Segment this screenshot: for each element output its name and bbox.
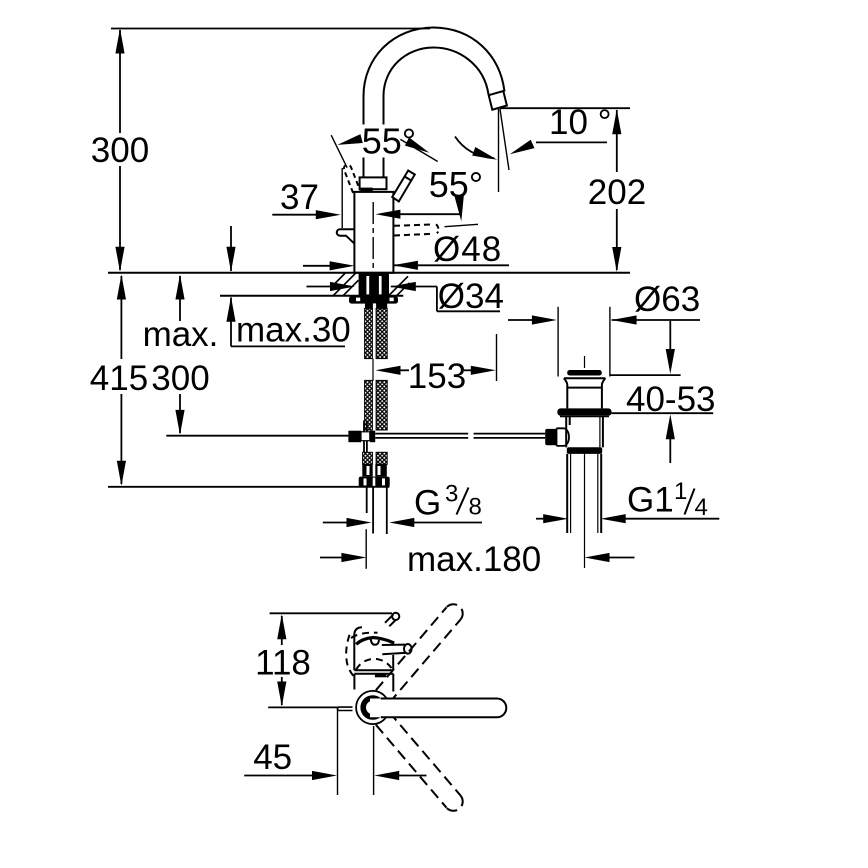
svg-text:4: 4 — [695, 494, 708, 521]
svg-text:max.: max. — [143, 315, 219, 354]
svg-text:max.30: max.30 — [236, 311, 351, 350]
svg-text:max.180: max.180 — [407, 540, 541, 579]
svg-text:55°: 55° — [362, 121, 416, 162]
svg-text:202: 202 — [588, 173, 646, 212]
svg-text:1: 1 — [674, 478, 687, 505]
svg-text:Ø34: Ø34 — [438, 277, 504, 316]
svg-text:40-53: 40-53 — [626, 380, 716, 419]
svg-text:G1: G1 — [627, 481, 674, 520]
svg-text:G: G — [414, 484, 441, 523]
svg-text:153: 153 — [408, 357, 466, 396]
svg-text:300: 300 — [91, 131, 149, 170]
svg-text:Ø48: Ø48 — [433, 230, 502, 269]
svg-text:118: 118 — [255, 644, 311, 683]
svg-text:37: 37 — [280, 178, 319, 217]
svg-text:8: 8 — [469, 494, 482, 521]
svg-text:10 °: 10 ° — [549, 103, 612, 142]
svg-text:55°: 55° — [429, 164, 483, 205]
svg-text:Ø63: Ø63 — [634, 280, 700, 319]
svg-text:415: 415 — [90, 359, 148, 398]
svg-text:45: 45 — [253, 738, 292, 777]
svg-text:300: 300 — [151, 359, 209, 398]
svg-text:3: 3 — [445, 481, 458, 508]
